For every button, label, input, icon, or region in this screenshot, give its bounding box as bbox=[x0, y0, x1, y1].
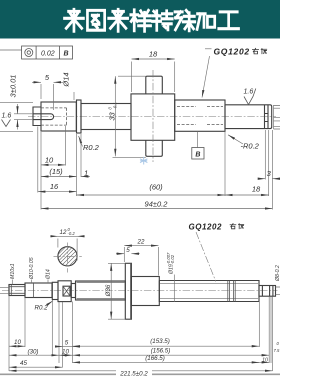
svg-text:10: 10 bbox=[14, 339, 21, 346]
dim 22 bbox=[124, 247, 158, 276]
dim 5 (slot depth) bbox=[40, 84, 42, 99]
ballscrew section right of block bbox=[175, 100, 225, 131]
dim 221.5±0.2 bbox=[9, 370, 273, 372]
clipped mating part at right edge bbox=[274, 105, 281, 129]
step after bearing bbox=[71, 284, 75, 298]
svg-text:(156.5): (156.5) bbox=[151, 348, 171, 355]
feature control frame leader bbox=[0, 49, 22, 51]
M10x1 thread section bbox=[9, 285, 25, 296]
svg-text:22: 22 bbox=[137, 238, 145, 245]
concentricity symbol bbox=[25, 49, 33, 57]
screw root lines bbox=[160, 284, 258, 299]
svg-text:94±0.2: 94±0.2 bbox=[145, 199, 169, 208]
svg-text:(30): (30) bbox=[27, 348, 38, 355]
nut block bbox=[131, 94, 175, 140]
dim 1 (ring) bbox=[81, 176, 90, 178]
dim (156.5) bbox=[73, 354, 270, 356]
dim 10 (right) bbox=[253, 361, 260, 363]
label O19 -0.007/-0.02 bbox=[166, 252, 175, 275]
extension lines bottom left bbox=[38, 126, 81, 210]
svg-text:M10x1: M10x1 bbox=[10, 263, 16, 279]
flange bbox=[125, 263, 131, 319]
svg-text:B: B bbox=[195, 152, 200, 159]
svg-text:Ø19: Ø19 bbox=[169, 264, 175, 275]
svg-text:5: 5 bbox=[126, 247, 130, 254]
dim 12 0/-0.2 (section) bbox=[58, 239, 77, 261]
leader dashed to screw bbox=[196, 232, 216, 282]
svg-text:-R0.2: -R0.2 bbox=[241, 142, 260, 151]
svg-text:45: 45 bbox=[20, 360, 27, 367]
extension lines below bbox=[9, 296, 273, 372]
thread root dashes bbox=[177, 107, 223, 125]
dim 5 (flange width) bbox=[116, 253, 124, 255]
svg-text:Ø14: Ø14 bbox=[62, 72, 71, 87]
svg-text:33: 33 bbox=[108, 112, 117, 121]
dim 94±0.2 bbox=[41, 208, 272, 210]
collar bbox=[52, 282, 58, 299]
svg-text:R0.2: R0.2 bbox=[83, 143, 100, 152]
label GQ1202 right-hand (top) bbox=[205, 48, 212, 50]
dim 3 (groove to end) bbox=[258, 178, 265, 180]
end grooves bbox=[262, 286, 273, 297]
centerline bbox=[28, 116, 276, 118]
clipped lines beyond end bbox=[276, 287, 281, 295]
dim (60) bbox=[77, 194, 226, 196]
svg-text:(166.5): (166.5) bbox=[145, 355, 165, 362]
dim 5 (row1) bbox=[56, 346, 63, 348]
O10 section bbox=[25, 283, 52, 298]
shaft section between ring and block bbox=[81, 104, 131, 130]
dim 10 bbox=[41, 164, 66, 166]
block top stub bbox=[146, 76, 163, 94]
feature control frame box bbox=[22, 46, 73, 59]
block bottom stub bbox=[146, 140, 163, 156]
slot in left end bbox=[33, 114, 54, 120]
svg-text:GQ1202: GQ1202 bbox=[189, 222, 223, 231]
svg-text:-0.02: -0.02 bbox=[170, 254, 175, 264]
svg-text:0.02: 0.02 bbox=[41, 50, 55, 57]
svg-text:18: 18 bbox=[149, 50, 158, 59]
left shaft section (O14) bbox=[41, 102, 76, 131]
svg-text:10: 10 bbox=[262, 357, 268, 363]
datum B flag bbox=[197, 131, 199, 147]
leader from GQ1202 to screw bbox=[202, 56, 210, 98]
svg-text:1: 1 bbox=[84, 169, 88, 178]
dim O14 (ring) bbox=[73, 92, 75, 100]
dim 18 (block width, top) bbox=[131, 62, 133, 93]
svg-text:10: 10 bbox=[45, 155, 54, 164]
svg-text:GQ1202: GQ1202 bbox=[214, 46, 250, 56]
dim 10 (row2) bbox=[59, 354, 73, 356]
dim 45 bbox=[9, 366, 63, 368]
dim (153.5) bbox=[73, 345, 260, 347]
svg-text:-0.2: -0.2 bbox=[68, 231, 76, 236]
svg-text:7.5: 7.5 bbox=[274, 348, 280, 353]
watermark snowflake bbox=[140, 157, 147, 165]
svg-text:18: 18 bbox=[252, 185, 261, 194]
O16 long section bbox=[76, 281, 126, 300]
right end section bbox=[259, 286, 276, 297]
svg-text:5: 5 bbox=[65, 340, 69, 347]
hatching bbox=[46, 235, 94, 279]
dim 33 0/-0.1 (height over stubs) bbox=[113, 76, 146, 157]
dim 10 (left row1) bbox=[9, 345, 25, 347]
dim 18 (right step) bbox=[225, 194, 269, 196]
svg-text:B: B bbox=[63, 50, 68, 57]
dim 16 bbox=[38, 191, 77, 193]
bearing inner square with X bbox=[63, 286, 70, 296]
svg-text:Ø8-0.2: Ø8-0.2 bbox=[275, 265, 280, 282]
circlip groove bbox=[265, 105, 269, 129]
block vertical centerline bbox=[152, 70, 154, 162]
svg-text:16: 16 bbox=[50, 182, 59, 191]
hidden hole (dashed) bbox=[41, 108, 67, 125]
svg-text:1.6: 1.6 bbox=[2, 113, 12, 120]
collar ring bbox=[77, 100, 82, 133]
svg-text:10: 10 bbox=[62, 348, 69, 355]
clipped left edge lines (top) bbox=[0, 102, 33, 131]
svg-text:12: 12 bbox=[60, 229, 67, 236]
right small section bbox=[225, 105, 272, 129]
title band bbox=[0, 0, 280, 39]
thread end marks bbox=[228, 281, 235, 302]
title text 来图来样特殊加工 (hand-drawn strokes) bbox=[64, 9, 238, 31]
extension lines bottom right bbox=[225, 130, 272, 210]
dim (30) bbox=[9, 354, 59, 356]
left stub shaft bbox=[33, 107, 41, 126]
svg-text:(15): (15) bbox=[49, 167, 63, 176]
ballscrew section bbox=[159, 281, 259, 302]
svg-text:Ø14: Ø14 bbox=[46, 269, 52, 280]
svg-text:3±0.01: 3±0.01 bbox=[9, 75, 18, 98]
bearing journal block bbox=[58, 281, 71, 302]
dim (166.5) bbox=[73, 361, 270, 363]
dim (15) bbox=[41, 176, 77, 178]
O19 section bbox=[131, 277, 159, 306]
svg-text:(60): (60) bbox=[149, 183, 163, 192]
left end face bbox=[8, 285, 10, 296]
centerline bbox=[2, 290, 278, 292]
svg-text:-0.1: -0.1 bbox=[112, 102, 117, 109]
svg-text:(153.5): (153.5) bbox=[150, 338, 170, 345]
circle crosshairs bbox=[54, 243, 82, 273]
clipped left edge lines (bottom) bbox=[0, 287, 9, 293]
svg-text:1.6: 1.6 bbox=[244, 89, 254, 96]
svg-text:Ø10-0.05: Ø10-0.05 bbox=[29, 257, 35, 280]
svg-text:221.5±0.2: 221.5±0.2 bbox=[119, 371, 148, 378]
